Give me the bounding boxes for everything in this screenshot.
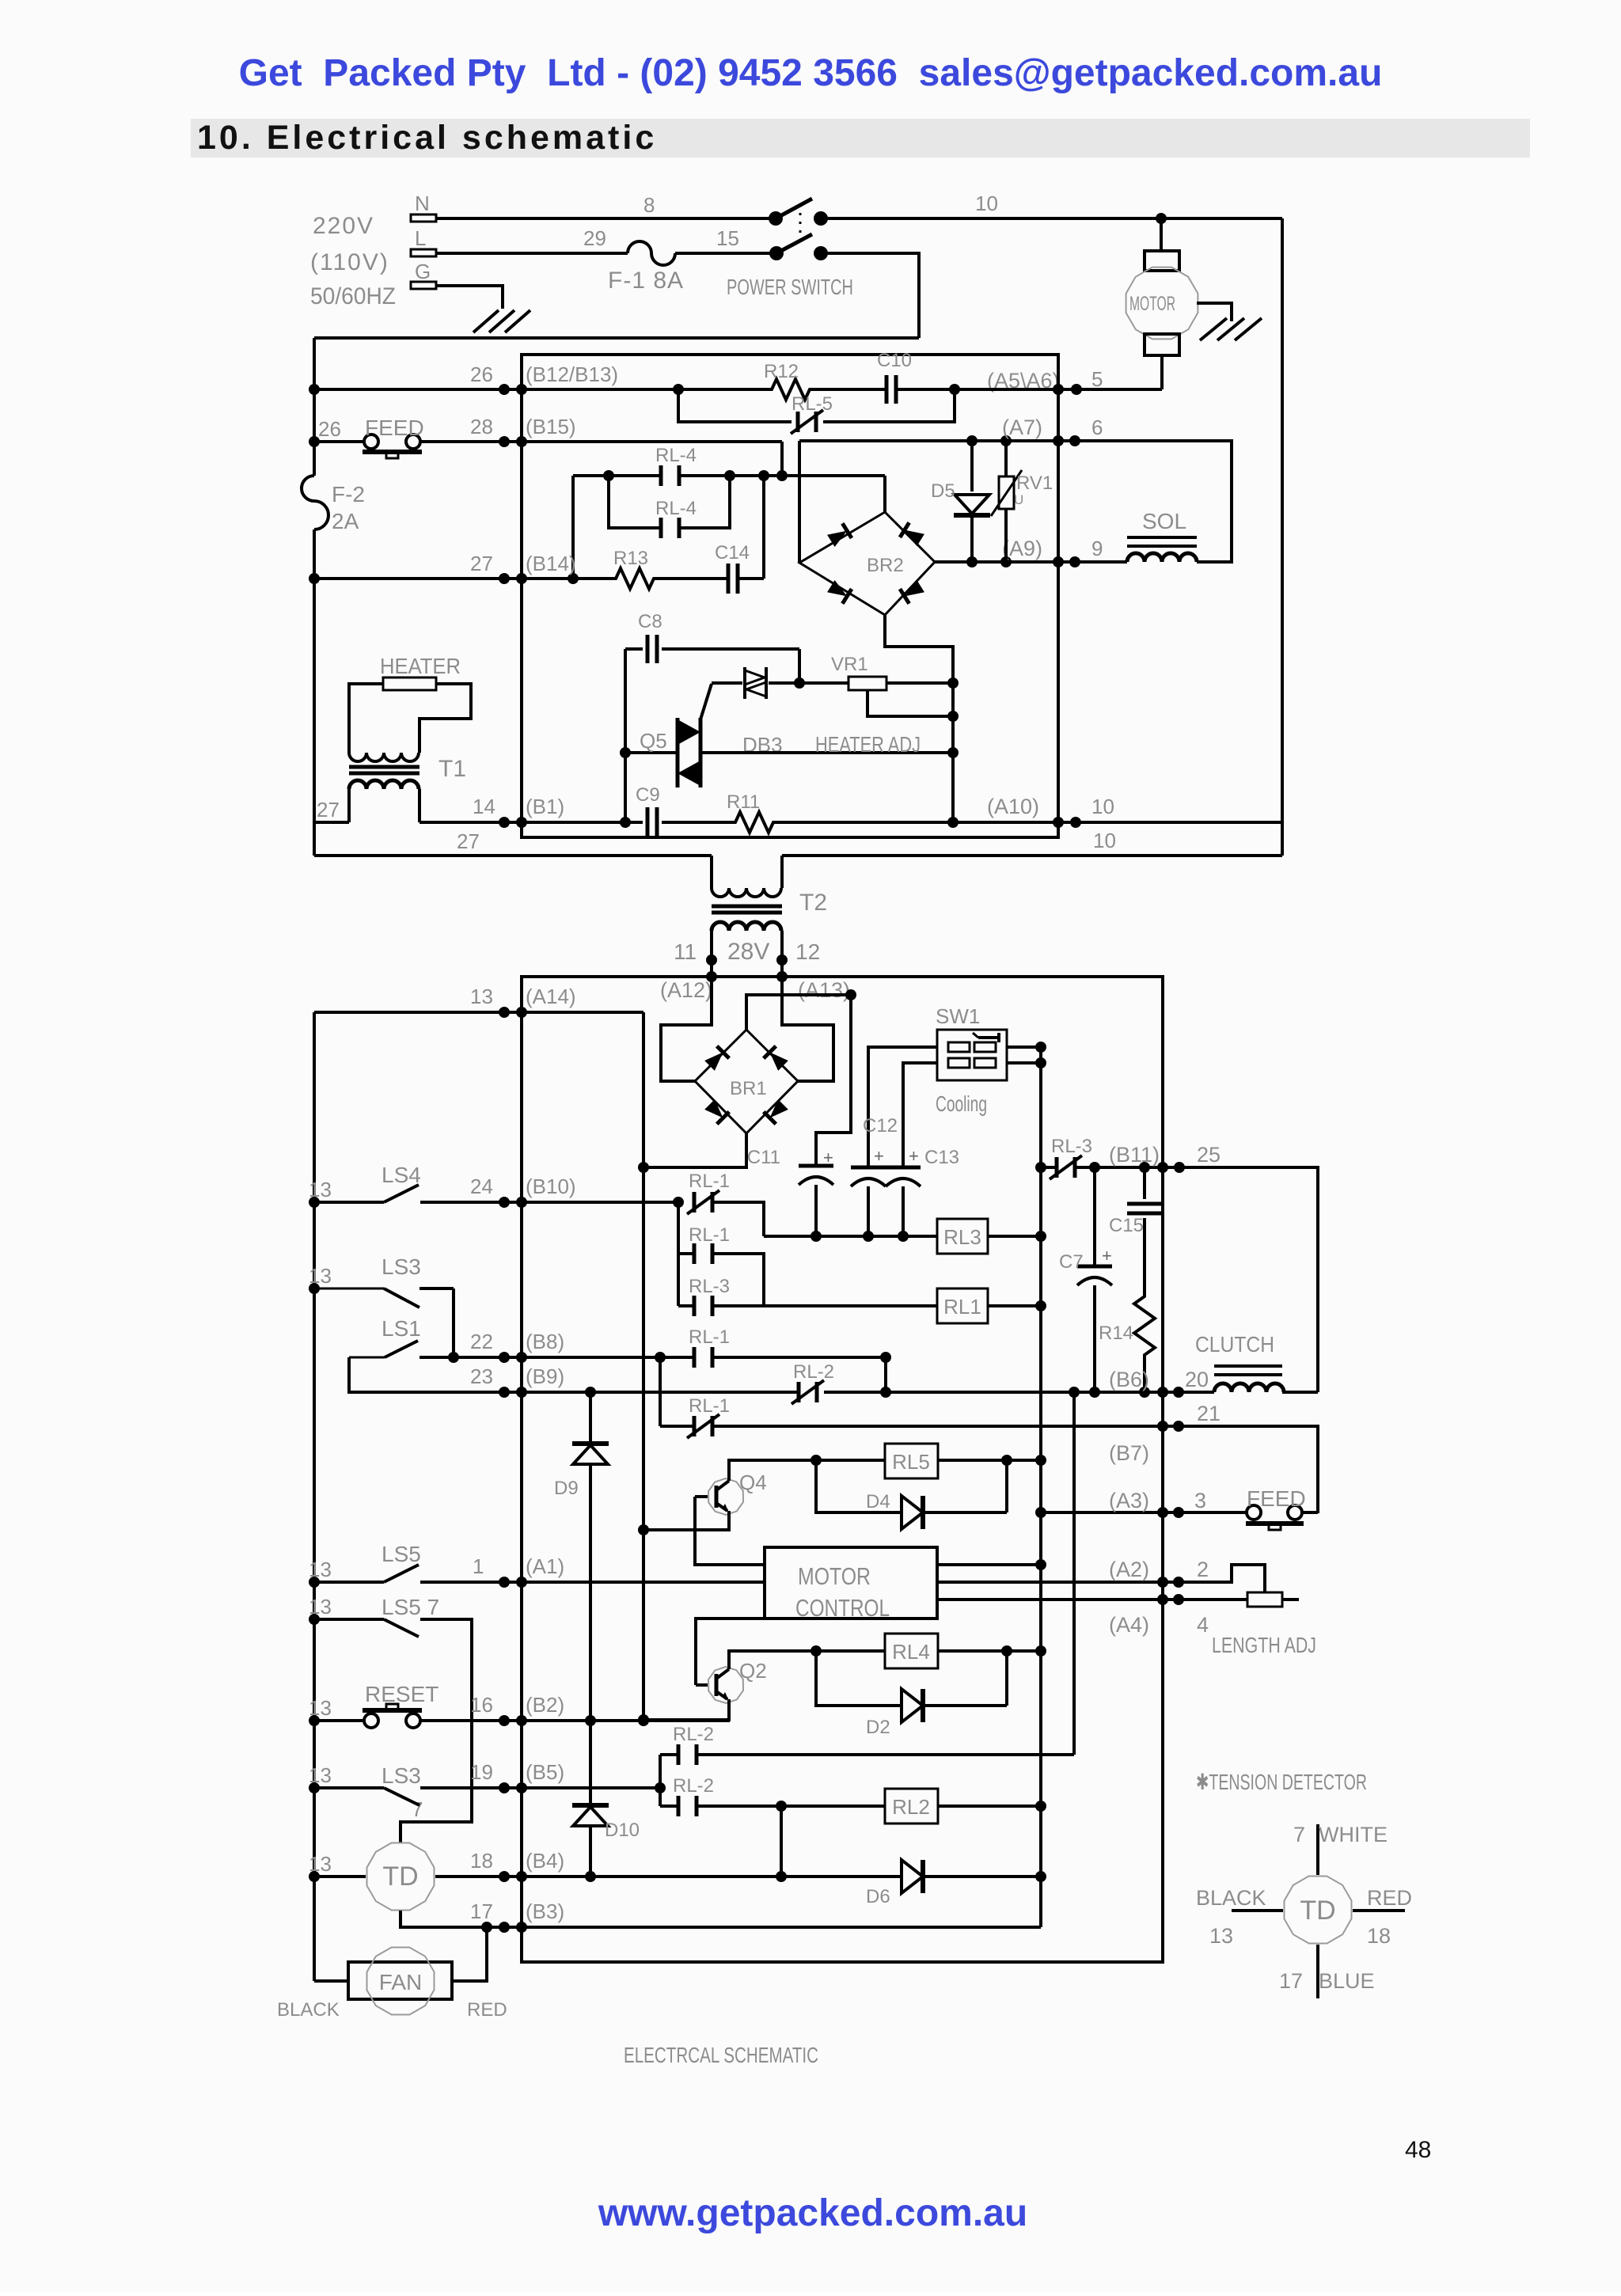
relay coil RL2 (885, 1789, 938, 1824)
svg-text:(B2): (B2) (526, 1693, 564, 1717)
svg-text:(A7): (A7) (1002, 416, 1042, 439)
svg-text:Q5: Q5 (640, 729, 667, 753)
wire LS4 to RL-1 (420, 1201, 678, 1204)
junction dots row B11 (1089, 1162, 1185, 1173)
svg-text:220V: 220V (313, 213, 374, 239)
svg-text:27: 27 (470, 552, 493, 575)
T2 secondary terminal dots (706, 954, 788, 966)
junction dot B8 834 (655, 1352, 666, 1363)
wire row B9 B6 (504, 1391, 799, 1394)
diode D6 (866, 1860, 923, 1907)
svg-text:RL1: RL1 (943, 1295, 981, 1319)
wire row B5 (420, 1786, 660, 1789)
wire D2 branch (816, 1651, 902, 1706)
limit switch LS3 lower (309, 1763, 421, 1805)
junction dots RL-4 row (603, 470, 788, 481)
svg-text:RV1: RV1 (1016, 472, 1053, 494)
svg-text:6: 6 (1091, 416, 1103, 439)
svg-text:RL-1: RL-1 (689, 1326, 730, 1348)
power switch SW (727, 199, 853, 299)
wire BR2 bottom to rail (885, 615, 953, 822)
wire BR1 bottom to minus rail (643, 1133, 746, 1167)
limit switch LS3 (314, 1254, 421, 1307)
svg-text:D10: D10 (605, 1820, 640, 1841)
wire TD legend left (1232, 1909, 1283, 1912)
relay contact RL-3 chain (689, 1276, 730, 1316)
svg-text:CONTROL: CONTROL (795, 1594, 890, 1622)
wire B8 down to B9 (884, 1357, 887, 1392)
wire Q2 base to motor control (696, 1619, 765, 1685)
svg-text:26: 26 (318, 417, 341, 441)
svg-text:(A4): (A4) (1109, 1613, 1149, 1637)
solenoid SOL (1075, 441, 1232, 562)
svg-text:SOL: SOL (1142, 509, 1186, 533)
wire Q4 collector to RL5 row (729, 1460, 885, 1481)
svg-text:48: 48 (1405, 2137, 1431, 2163)
svg-text:U: U (1014, 492, 1023, 507)
svg-text:17: 17 (1279, 1969, 1303, 1993)
svg-text:D5: D5 (931, 480, 955, 502)
svg-text:(110V): (110V) (310, 249, 389, 275)
fuse F-1 8A (608, 241, 684, 294)
potentiometer VR1 heater (831, 654, 953, 690)
svg-text:13: 13 (309, 1696, 332, 1720)
svg-text:1: 1 (473, 1554, 484, 1578)
svg-text:RL-4: RL-4 (655, 498, 697, 519)
relay contact RL-2 b (660, 1775, 714, 1816)
wire RL-2 a out (697, 1753, 1074, 1756)
svg-text:+: + (823, 1148, 833, 1167)
svg-text:19: 19 (470, 1760, 493, 1784)
wire A7 to BR2 left arm (798, 441, 801, 563)
svg-text:C9: C9 (636, 784, 660, 806)
svg-text:28V: 28V (727, 939, 769, 965)
svg-text:RED: RED (1367, 1886, 1412, 1910)
wire A12 to BR1 left (661, 977, 712, 1081)
svg-text:21: 21 (1197, 1402, 1220, 1425)
svg-text:(B15): (B15) (526, 415, 576, 438)
wire SW1 upper left lead to C12 (868, 1047, 937, 1167)
wire row A7 (799, 439, 1076, 442)
terminal L (411, 226, 436, 256)
relay contact RL-4 b (609, 476, 730, 538)
junction dot RL1 rail (1035, 1300, 1046, 1311)
wire cap bottom leads (814, 1185, 818, 1236)
wire chain mid leg (678, 1252, 694, 1255)
wire row B2 (420, 1719, 730, 1722)
wire C8 row (624, 649, 627, 822)
wire Q2 emitter to rail (643, 1699, 729, 1720)
wire row A10 to right edge (1058, 821, 1282, 824)
wire RL-3 to B11 node (1075, 1166, 1179, 1169)
wire row A9 (935, 560, 1076, 564)
wire row B4 (522, 1875, 902, 1878)
svg-text:RL5: RL5 (892, 1450, 930, 1474)
wire row 28 B15 (420, 440, 782, 443)
junction dots row A4 (1157, 1594, 1184, 1605)
resistor R14 (1099, 1218, 1155, 1392)
svg-text:RL-1: RL-1 (689, 1171, 730, 1192)
transformer T2 (712, 888, 827, 931)
svg-text:LS3: LS3 (382, 1763, 421, 1788)
svg-text:15: 15 (716, 226, 739, 250)
wire 10 switch to right edge (821, 217, 1282, 220)
svg-text:(B9): (B9) (526, 1364, 564, 1388)
svg-text:29: 29 (583, 226, 606, 250)
svg-text:R13: R13 (613, 548, 648, 569)
svg-text:RL-2: RL-2 (673, 1775, 714, 1797)
svg-text:RL-2: RL-2 (793, 1361, 834, 1383)
svg-text:(A2): (A2) (1109, 1558, 1149, 1581)
svg-text:BR1: BR1 (730, 1078, 767, 1099)
svg-text:HEATER ADJ: HEATER ADJ (815, 732, 921, 757)
svg-text:27: 27 (317, 798, 340, 822)
push button FEED upper (363, 416, 424, 458)
svg-text:13: 13 (309, 1178, 332, 1201)
svg-text:D4: D4 (866, 1491, 890, 1512)
wire left rail lower 13 (313, 1012, 316, 1981)
clutch coil (1179, 1332, 1318, 1392)
svg-text:27: 27 (457, 829, 480, 853)
svg-text:C15: C15 (1109, 1215, 1144, 1236)
wire 21 to FEED lower (1179, 1426, 1318, 1513)
svg-text:20: 20 (1185, 1368, 1209, 1391)
svg-text:8: 8 (643, 193, 655, 217)
relay contact RL-5 (678, 389, 955, 434)
svg-text:+: + (874, 1146, 884, 1166)
capacitor C10 (877, 350, 912, 404)
potentiometer length adj (1179, 1592, 1299, 1607)
svg-text:5: 5 (1091, 367, 1103, 391)
limit switch LS1 (349, 1316, 421, 1357)
junction dots row 26 (309, 384, 1064, 395)
motor control module (765, 1547, 937, 1622)
relay coil RL1 (937, 1288, 988, 1323)
svg-text:R14: R14 (1099, 1323, 1133, 1344)
junction dots row B5 (499, 1782, 666, 1793)
svg-text:13: 13 (309, 1264, 332, 1288)
wire cap bus row (764, 1235, 937, 1238)
wire B5 down to RL-2 b (659, 1788, 662, 1806)
wire 25 loop right (1179, 1167, 1318, 1392)
wire G stub (436, 286, 503, 309)
svg-text:VR1: VR1 (831, 654, 868, 675)
svg-text:WHITE: WHITE (1319, 1823, 1388, 1846)
svg-text:CLUTCH: CLUTCH (1195, 1332, 1274, 1357)
svg-text:POWER SWITCH: POWER SWITCH (727, 275, 853, 299)
svg-text:(A12): (A12) (660, 978, 712, 1002)
terminal N (411, 192, 436, 222)
svg-text:(B8): (B8) (526, 1330, 564, 1353)
svg-text:10: 10 (1093, 829, 1116, 852)
wire row 27 B14 (314, 577, 609, 580)
svg-text:2A: 2A (332, 509, 359, 533)
wire RL-2 b out to RL2 coil (697, 1805, 885, 1808)
svg-text:(A13): (A13) (798, 978, 850, 1002)
wire row A3 (1041, 1511, 1179, 1514)
wire lower inner box border (522, 977, 1163, 1962)
svg-text:7: 7 (1293, 1823, 1305, 1846)
wire RL5 out (938, 1459, 1041, 1462)
svg-text:G: G (415, 260, 431, 283)
wire row 13 A14 (314, 1011, 643, 1014)
junction dots row B3 (481, 1922, 527, 1933)
wire RL4 out (938, 1649, 1041, 1653)
motor ground wire (1197, 303, 1232, 321)
junction dots RL5 row (810, 1455, 1046, 1466)
wire 987 down to B4 (780, 1806, 783, 1875)
diode D9 (554, 1392, 609, 1720)
svg-text:FAN: FAN (379, 1970, 422, 1994)
svg-text:C11: C11 (747, 1147, 780, 1168)
junction dots cap bus (810, 1231, 909, 1242)
svg-text:C14: C14 (715, 542, 750, 564)
svg-text:RED: RED (467, 1999, 507, 2021)
wire T2 secondary leads (710, 931, 713, 977)
wire RL-4 node row (573, 474, 661, 477)
svg-text:23: 23 (470, 1364, 493, 1388)
svg-text:13: 13 (309, 1852, 332, 1876)
wire A13 to BR1 right (782, 977, 833, 1081)
wire C8 right drop (798, 649, 801, 683)
limit switch LS5 (309, 1542, 421, 1588)
wire L-switch down to upper box (821, 253, 919, 338)
wire N to power switch (436, 217, 776, 220)
junction dot Q5 row (620, 747, 631, 758)
capacitor C9 (636, 784, 660, 837)
terminal dot 5 (1071, 384, 1082, 395)
wire SW1 right leads (1007, 1046, 1041, 1049)
svg-text:C8: C8 (638, 611, 662, 632)
wire rail A14 down (642, 1012, 645, 1720)
junction dot out 1977 (1035, 1559, 1046, 1570)
svg-text:RL-4: RL-4 (655, 445, 697, 466)
transformer T1 (349, 753, 466, 789)
transistor Q4 (695, 1471, 767, 1515)
wire heater right lead (419, 684, 471, 753)
svg-text:(A14): (A14) (526, 985, 576, 1008)
wire row B8 inside (522, 1356, 694, 1359)
resistor R13 (609, 548, 660, 589)
capacitor C14 (715, 542, 750, 594)
junction dots row 21 (1157, 1421, 1184, 1432)
svg-text:(A3): (A3) (1109, 1489, 1149, 1512)
wire row B1 14 (419, 821, 643, 824)
junction dots row B9 B6 (499, 1387, 1184, 1398)
svg-text:✱TENSION DETECTOR: ✱TENSION DETECTOR (1196, 1770, 1367, 1794)
svg-text:BLACK: BLACK (1196, 1886, 1266, 1910)
svg-text:LENGTH ADJ: LENGTH ADJ (1212, 1633, 1316, 1657)
svg-text:MOTOR: MOTOR (1129, 293, 1175, 315)
svg-text:RL4: RL4 (892, 1640, 930, 1664)
wire length adj wiper loop (1179, 1565, 1265, 1592)
push button RESET (309, 1682, 438, 1728)
svg-text:(B12/B13): (B12/B13) (526, 362, 618, 386)
junction dot RL2 rail (1035, 1801, 1046, 1812)
junction dot D6 rail (1035, 1871, 1046, 1882)
svg-text:D9: D9 (554, 1478, 579, 1499)
capacitor C7 (1059, 1167, 1112, 1392)
limit switch LS5-7 (309, 1595, 439, 1637)
svg-text:C10: C10 (877, 350, 912, 371)
capacitor C8 (625, 611, 799, 663)
svg-text:RL-1: RL-1 (689, 1395, 730, 1417)
svg-text:22: 22 (470, 1330, 493, 1353)
svg-text:D6: D6 (866, 1886, 890, 1907)
wire RL2 to rail (938, 1805, 1041, 1808)
junction dot LS3 rail (309, 1283, 320, 1294)
junction dots row A1 (499, 1577, 527, 1588)
wire BR1 top to plus node (746, 995, 851, 1030)
junction dots row B4 left (499, 1871, 527, 1882)
svg-text:RL2: RL2 (892, 1795, 930, 1819)
junction dots row A7 (966, 435, 1080, 446)
heater element (383, 677, 436, 690)
wire B15 drop to node (780, 442, 784, 476)
svg-text:18: 18 (470, 1849, 493, 1873)
svg-text:N: N (415, 192, 430, 215)
push button FEED lower (1179, 1486, 1318, 1530)
wire VR1 wiper (867, 690, 953, 716)
svg-text:RL3: RL3 (943, 1225, 981, 1249)
switch SW1 cooling (936, 1004, 1007, 1116)
wire TD left (309, 1871, 320, 1882)
svg-text:12: 12 (795, 939, 820, 964)
wire heater left lead (349, 684, 383, 753)
wire row 26 B12/B13 (314, 388, 765, 391)
relay contact RL-2 B9 (792, 1361, 834, 1404)
wire bottom bus 10 right (782, 854, 1282, 857)
diode D4 (866, 1491, 923, 1529)
wire LS5-7 down to TD (401, 1619, 472, 1843)
svg-text:LS5 7: LS5 7 (382, 1595, 439, 1619)
svg-text:+: + (909, 1146, 919, 1166)
svg-text:18: 18 (1367, 1924, 1391, 1948)
section title band (191, 119, 1530, 157)
svg-text:TD: TD (382, 1861, 418, 1892)
wire D6 out (923, 1875, 1041, 1878)
svg-text:BLACK: BLACK (277, 1999, 340, 2021)
fuse F-2 2A (302, 476, 365, 533)
svg-text:(B11): (B11) (1109, 1143, 1160, 1167)
diode D10 (572, 1721, 640, 1877)
transistor Q2 (696, 1659, 767, 1703)
wire T1 secondary leads (347, 789, 351, 822)
tension detector TD legend (1285, 1877, 1352, 1944)
svg-text:Get Packed Pty Ltd - (02) 94: Get Packed Pty Ltd - (02) 9452 3566 sale… (239, 52, 1383, 94)
wire TD legend right (1353, 1909, 1405, 1912)
svg-text:(B14): (B14) (526, 552, 576, 575)
svg-text:17: 17 (470, 1899, 493, 1923)
wire Q4 emitter to minus rail (643, 1511, 729, 1530)
junction node motor tap (1156, 213, 1167, 224)
svg-text:16: 16 (470, 1693, 493, 1717)
svg-text:FEED: FEED (365, 416, 424, 440)
wire SW1 lower left lead to C13 (903, 1063, 937, 1167)
svg-text:C12: C12 (863, 1115, 898, 1137)
svg-text:(B5): (B5) (526, 1760, 564, 1784)
wire plus node down to C11 (816, 995, 851, 1166)
triac Q5 (625, 684, 953, 787)
svg-text:(B7): (B7) (1109, 1441, 1149, 1465)
svg-text:C13: C13 (924, 1147, 959, 1168)
wire row B10 LS4 (314, 1201, 384, 1204)
svg-text:9: 9 (1091, 537, 1103, 560)
wire B5 up to RL-2 a (659, 1755, 662, 1788)
relay contact RL-4 a (655, 445, 697, 486)
svg-text:(B1): (B1) (526, 795, 564, 818)
junction dots row 22 (448, 1352, 527, 1363)
svg-text:RESET: RESET (365, 1682, 438, 1706)
capacitor C13 (886, 1146, 959, 1186)
svg-text:(B10): (B10) (526, 1175, 576, 1198)
wire row 28 left (314, 440, 364, 443)
wire TD legend bottom (1316, 1945, 1319, 1998)
svg-text:SW1: SW1 (936, 1004, 980, 1028)
wire RL-1 out to cap bus (712, 1202, 764, 1236)
relay contact RL-1 row 21 (687, 1395, 730, 1438)
junction dot plus node (845, 989, 856, 1000)
svg-text:HEATER: HEATER (380, 654, 461, 678)
junction dots row B2 (499, 1715, 649, 1726)
junction dots T2 on box top (706, 971, 788, 982)
wire motor control out 1977 (937, 1563, 1041, 1566)
wire BR2 top feed (883, 476, 886, 512)
tension detector TD (367, 1843, 435, 1911)
relay contact RL-2 a (660, 1724, 714, 1765)
svg-text:13: 13 (309, 1595, 332, 1619)
wire RL-1 chain left leg (677, 1202, 680, 1306)
wire rail 1315 (1039, 1047, 1042, 1927)
wire right edge rail 10 (1281, 218, 1284, 856)
bridge rectifier BR1 (695, 1030, 798, 1133)
wire LS1 out row 22 (419, 1356, 522, 1359)
svg-text:10: 10 (975, 192, 998, 215)
junction dots row B1 (499, 817, 1081, 828)
svg-text:Q2: Q2 (739, 1659, 767, 1683)
junction dots row B4 (585, 1871, 787, 1882)
capacitor C12 (851, 1115, 898, 1186)
diode D2 (866, 1689, 923, 1738)
svg-text:3: 3 (1194, 1489, 1206, 1512)
wire fan right up (452, 1927, 487, 1981)
wire RL-3 row to RL1 coil (678, 1304, 694, 1307)
wire 1357 rail (1072, 1392, 1076, 1755)
svg-text:FEED: FEED (1247, 1486, 1306, 1511)
wire row 21 (660, 1425, 694, 1428)
varistor RV1 (991, 441, 1053, 562)
wire motor control out A2 (937, 1581, 1179, 1584)
wire RL-4 left leg to B14 (571, 476, 575, 579)
svg-text:L: L (415, 226, 426, 250)
junction dot DB3 C8 (794, 677, 805, 689)
relay coil RL3 (937, 1219, 988, 1254)
svg-text:LS3: LS3 (382, 1254, 421, 1279)
wire LS1 common to row 23 (349, 1357, 504, 1392)
svg-text:R12: R12 (764, 361, 799, 382)
relay contact RL-1 B8 (689, 1326, 730, 1368)
diac DB3 (742, 667, 783, 757)
svg-text:26: 26 (470, 362, 493, 386)
limit switch LS4 (382, 1163, 421, 1202)
svg-text:(B6): (B6) (1109, 1368, 1149, 1391)
svg-text:BLUE: BLUE (1319, 1969, 1375, 1993)
terminal G (411, 260, 436, 289)
svg-text:BR2: BR2 (867, 555, 904, 576)
junction dot Q4 emitter rail (638, 1524, 649, 1535)
svg-text:RL-1: RL-1 (689, 1224, 730, 1246)
svg-text:TD: TD (1300, 1896, 1335, 1926)
